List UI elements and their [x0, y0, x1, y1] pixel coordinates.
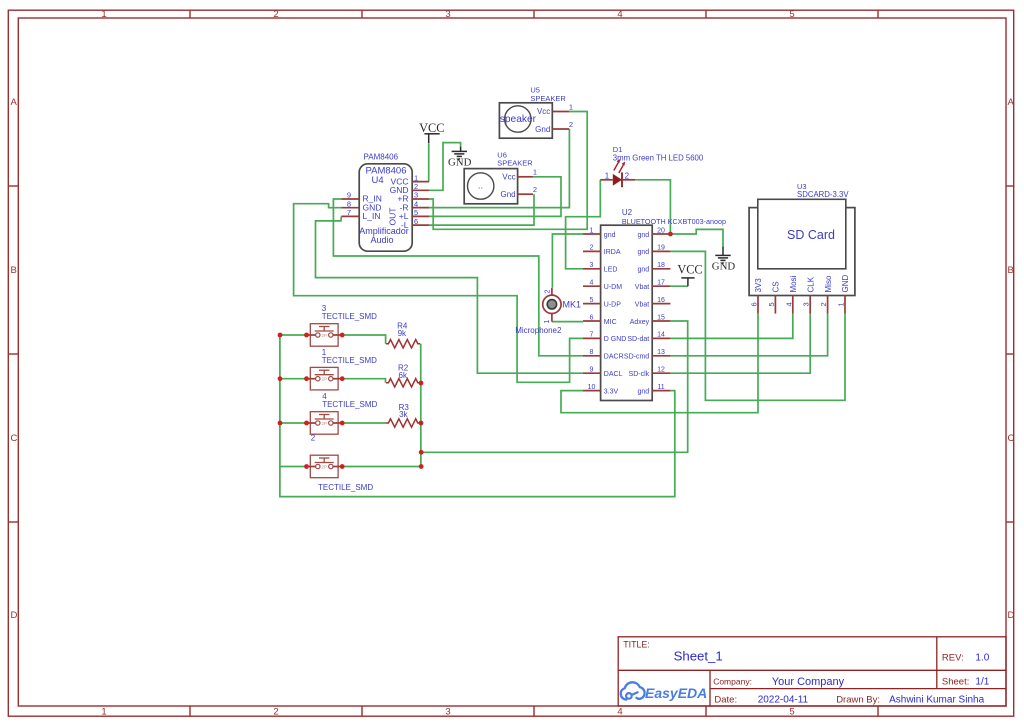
svg-text:4: 4 [784, 302, 793, 306]
svg-text:TECTILE_SMD: TECTILE_SMD [318, 483, 373, 492]
svg-text:2: 2 [819, 302, 828, 306]
svg-text:2022-04-11: 2022-04-11 [758, 695, 809, 706]
wire button S4 left [280, 422, 306, 424]
D1 pin 2 cathode stub [622, 179, 635, 181]
svg-text:5: 5 [789, 9, 794, 20]
svg-text:6: 6 [590, 314, 594, 321]
svg-text:U-DP: U-DP [604, 301, 621, 308]
wire U2 pin11 gnd to button common [280, 335, 675, 497]
svg-text:3: 3 [802, 302, 811, 306]
svg-text:Vbat: Vbat [635, 284, 649, 291]
U2 pin 2 IRDA stub [583, 250, 601, 252]
svg-text:19: 19 [657, 245, 665, 252]
frame tick right y=522 [1006, 521, 1014, 523]
U2 pin 19 gnd stub [652, 250, 670, 252]
svg-text:TECTILE_SMD: TECTILE_SMD [322, 400, 377, 409]
frame tick top x=190 [189, 10, 191, 18]
wire button S3 to R4 [342, 335, 386, 344]
wire U4 GND to U2 D GND [294, 204, 583, 383]
svg-text:14: 14 [657, 332, 665, 339]
U5 pin 2 Gnd stub [552, 128, 569, 130]
svg-text:Ashwini Kumar Sinha: Ashwini Kumar Sinha [889, 695, 984, 706]
svg-text:2: 2 [414, 182, 418, 191]
wire D1 cathode to U2 pin20 [635, 180, 670, 234]
svg-text:SPEAKER: SPEAKER [497, 159, 533, 168]
svg-text:C: C [1008, 433, 1015, 444]
svg-text:TITLE:: TITLE: [623, 640, 649, 650]
U4 pin 6 -L stub [412, 224, 429, 226]
svg-text:GND: GND [841, 275, 850, 293]
wire U4 L_IN to U2 DACL [316, 216, 584, 373]
svg-text:3: 3 [445, 707, 450, 718]
U4 pin 9 R_IN stub [341, 198, 359, 200]
svg-text:4: 4 [617, 9, 622, 20]
ground flag GND (near U4) [448, 147, 472, 169]
svg-text:C: C [11, 433, 18, 444]
U3 pin 2 Miso stub [827, 296, 829, 314]
svg-text:3.3V: 3.3V [604, 388, 619, 395]
EasyEDA logo [621, 682, 708, 701]
speaker U5 [499, 86, 566, 139]
svg-text:SD Card: SD Card [787, 228, 835, 242]
svg-text:4: 4 [617, 707, 622, 718]
U2 pin 3 LED stub [583, 268, 601, 270]
svg-text:CS: CS [772, 281, 781, 292]
svg-text:10: 10 [588, 384, 596, 391]
wire U2 pin20 to GND flag [670, 229, 723, 247]
svg-text:6: 6 [750, 302, 759, 306]
svg-text:7: 7 [347, 208, 351, 217]
U2 pin 17 Vbat stub [652, 285, 670, 287]
power flag VCC (U2 Vbat) [677, 263, 702, 287]
svg-text:..: .. [478, 181, 483, 191]
speaker U6 [464, 150, 533, 204]
pushbutton S1 TECTILE_SMD [304, 367, 345, 390]
LED D1 3mm Green TH LED 5600 [613, 145, 704, 187]
U2 pin 1 gnd stub [583, 233, 601, 235]
svg-text:A: A [11, 97, 18, 108]
frame tick bottom x=706 [705, 706, 707, 716]
svg-text:9k: 9k [398, 329, 407, 338]
U4 pin 2 GND stub [412, 189, 429, 191]
frame tick top x=534 [533, 10, 535, 18]
junction common S1 [278, 376, 283, 381]
pushbutton S2 TECTILE_SMD [304, 455, 345, 478]
svg-text:Sheet:: Sheet: [942, 677, 969, 688]
wire resistor column [420, 344, 422, 467]
svg-text:Gnd: Gnd [500, 190, 515, 199]
U2 pin 10 3.3V stub [583, 390, 601, 392]
svg-text:L_IN: L_IN [363, 211, 381, 221]
svg-text:DACL: DACL [604, 371, 623, 378]
svg-text:9: 9 [347, 191, 351, 200]
svg-text:7: 7 [590, 332, 594, 339]
svg-text:15: 15 [657, 314, 665, 321]
svg-text:D: D [11, 610, 18, 621]
svg-text:OUT: OUT [388, 208, 398, 226]
svg-text:B: B [1008, 265, 1014, 276]
svg-text:17: 17 [657, 280, 665, 287]
svg-text:2: 2 [273, 707, 278, 718]
svg-text:TECTILE_SMD: TECTILE_SMD [322, 312, 377, 321]
U4 pin 4 -R stub [412, 207, 429, 209]
frame tick right y=186 [1006, 185, 1014, 187]
wire U4 -L to U6 Gnd [429, 194, 534, 225]
svg-text:Vcc: Vcc [502, 173, 515, 182]
wire D1 anode to U2 LED [566, 180, 601, 269]
MK1 pin 1 stub [551, 313, 553, 321]
svg-text:2: 2 [625, 171, 630, 180]
op-amp U4 PAM8406 audio amplifier [359, 153, 412, 252]
svg-text:SD-clk: SD-clk [629, 371, 650, 378]
wire button S4 to R3 [342, 422, 386, 424]
wire button S1 to R2 [342, 379, 386, 383]
svg-text:SPEAKER: SPEAKER [530, 94, 566, 103]
svg-text:Gnd: Gnd [535, 125, 550, 134]
wire VCC flag to U4 pin1 VCC [428, 144, 430, 182]
svg-text:2: 2 [544, 290, 551, 294]
svg-text:U-DM: U-DM [604, 284, 622, 291]
frame tick left y=522 [8, 521, 18, 523]
svg-text:5: 5 [590, 297, 594, 304]
U2 pin 18 gnd stub [652, 268, 670, 270]
U2 pin 13 SD-cmd stub [652, 355, 670, 357]
U2 pin 11 gnd stub [652, 390, 670, 392]
U2 pin 7 D GND stub [583, 337, 601, 339]
svg-text:3: 3 [590, 262, 594, 269]
junction common S3 [278, 333, 283, 338]
svg-text:Company:: Company: [713, 676, 752, 686]
svg-text:2P: 2P [321, 465, 327, 470]
U2 pin 6 MIC stub [583, 320, 601, 322]
IC U2 BLUETOOTH KCXBT003-anoop [601, 208, 726, 401]
pushbutton S4 TECTILE_SMD [304, 412, 345, 435]
U4 pin 7 L_IN stub [341, 215, 359, 217]
svg-text:gnd: gnd [638, 267, 650, 274]
U2 pin 5 U-DP stub [583, 303, 601, 305]
svg-text:gnd: gnd [604, 232, 616, 239]
svg-text:REV:: REV: [942, 653, 964, 664]
svg-text:Microphone2: Microphone2 [515, 326, 562, 335]
svg-text:gnd: gnd [638, 249, 650, 256]
svg-text:gnd: gnd [638, 232, 650, 239]
svg-text:1: 1 [533, 168, 537, 177]
resistor R3 3k [386, 419, 420, 427]
svg-text:6: 6 [414, 217, 418, 226]
resistor R4 9k [386, 340, 420, 348]
svg-text:3V3: 3V3 [754, 278, 763, 293]
svg-text:2: 2 [273, 9, 278, 20]
U6 pin 1 Vcc stub [518, 176, 534, 178]
wire microphone pin1 to U2 MIC [552, 321, 583, 323]
frame tick bottom x=362 [361, 706, 363, 716]
svg-text:SD-dat: SD-dat [627, 336, 649, 343]
svg-text:LED: LED [604, 267, 618, 274]
U2 pin 20 gnd stub [652, 233, 670, 235]
svg-text:Sheet_1: Sheet_1 [674, 648, 723, 663]
svg-text:Your Company: Your Company [772, 676, 845, 688]
svg-text:1: 1 [101, 707, 106, 718]
U5 pin 1 Vcc stub [552, 111, 569, 113]
svg-text:3k: 3k [399, 410, 408, 419]
svg-text:U2: U2 [622, 208, 633, 217]
frame tick top x=362 [361, 10, 363, 18]
frame tick right y=354 [1006, 353, 1014, 355]
junction S2 right [419, 464, 424, 469]
svg-text:GND: GND [712, 261, 736, 273]
svg-text:2P: 2P [321, 377, 327, 382]
U2 pin 15 Adxey stub [652, 320, 670, 322]
svg-text:8: 8 [347, 199, 351, 208]
svg-text:2: 2 [533, 185, 537, 194]
svg-text:1: 1 [544, 320, 551, 324]
svg-text:EasyEDA: EasyEDA [645, 685, 707, 701]
junction common S4 [278, 421, 283, 426]
svg-text:GND: GND [448, 156, 472, 168]
frame tick top x=706 [705, 10, 707, 18]
svg-text:3mm Green TH LED 5600: 3mm Green TH LED 5600 [613, 154, 704, 163]
svg-text:VCC: VCC [677, 263, 702, 277]
frame tick bottom x=190 [189, 706, 191, 716]
wire U2 SD-clk to SD CLK [670, 314, 810, 374]
svg-text:5: 5 [789, 707, 794, 718]
svg-text:SDCARD-3.3V: SDCARD-3.3V [797, 190, 849, 199]
junction Adkey net [419, 450, 424, 455]
svg-text:DACR: DACR [604, 354, 624, 361]
svg-text:1/1: 1/1 [975, 677, 989, 688]
power flag VCC (U4) [419, 121, 444, 143]
U2 pin 4 U-DM stub [583, 285, 601, 287]
svg-text:1: 1 [837, 302, 846, 306]
U2 pin 16 Vbat stub [652, 303, 670, 305]
U4 pin 3 +R stub [412, 198, 429, 200]
U2 pin 12 SD-clk stub [652, 372, 670, 374]
svg-text:3: 3 [445, 9, 450, 20]
title block [618, 637, 1006, 706]
U3 pin 3 CLK stub [809, 296, 811, 314]
wire U4 R_IN to U2 DACR [333, 199, 583, 356]
wire U2 pin19 gnd to SD GND [670, 251, 845, 400]
U3 pin 1 GND stub [844, 296, 846, 314]
svg-text:Miso: Miso [824, 275, 833, 292]
svg-text:2P: 2P [321, 421, 327, 426]
svg-text:20: 20 [657, 227, 665, 234]
wire U2 SD-dat to SD Mosi [670, 314, 792, 339]
svg-text:13: 13 [657, 349, 665, 356]
svg-text:18: 18 [657, 262, 665, 269]
wire button S1 left [280, 378, 306, 380]
svg-text:2: 2 [311, 434, 316, 443]
svg-text:1: 1 [101, 9, 106, 20]
svg-text:MIC: MIC [604, 319, 617, 326]
U4 pin 5 +L stub [412, 215, 429, 217]
frame tick bottom x=534 [533, 706, 535, 716]
svg-text:2: 2 [569, 120, 573, 129]
frame tick left y=186 [8, 185, 18, 187]
wire U2 pin1 gnd to microphone pin2 [552, 234, 583, 288]
wire button S2 to column [342, 466, 421, 468]
wire U4 +R to U5 Vcc [429, 112, 587, 230]
connector U3 SDCARD-3.3V [749, 182, 855, 296]
svg-text:1.0: 1.0 [975, 653, 989, 664]
svg-text:1: 1 [590, 227, 594, 234]
svg-text:PAM8406: PAM8406 [364, 153, 399, 162]
junction U2 pin20 / D1 net [668, 232, 673, 237]
frame tick left y=354 [8, 353, 18, 355]
svg-text:SD-cmd: SD-cmd [624, 354, 649, 361]
frame tick bottom x=878 [877, 706, 879, 716]
svg-text:speaker: speaker [500, 114, 537, 125]
U4 pin 1 VCC stub [412, 181, 429, 183]
wire U2 SD-cmd to SD Miso [670, 314, 827, 356]
svg-text:U4: U4 [372, 175, 384, 186]
U3 pin 5 CS stub [774, 296, 776, 314]
MK1 pin 2 stub [551, 288, 553, 295]
U6 pin 2 Gnd stub [518, 193, 534, 195]
svg-text:4: 4 [590, 280, 594, 287]
wire U4 pin2 GND to GND flag [429, 143, 461, 191]
svg-text:1: 1 [569, 102, 573, 111]
svg-text:Drawn By:: Drawn By: [836, 695, 880, 706]
wire U4 +L to U6 Vcc [429, 177, 561, 217]
U3 pin 4 Mosi stub [792, 296, 794, 314]
svg-text:5: 5 [767, 302, 776, 306]
U4 pin 8 GND stub [341, 207, 359, 209]
wire U4 -R to U5 Gnd [429, 129, 569, 208]
svg-text:Adxey: Adxey [630, 319, 650, 326]
wire button S2 left [280, 466, 306, 468]
wire U2 pin15 Adkey to button ladder [421, 321, 688, 452]
resistor R2 6k [386, 379, 420, 387]
svg-text:Vcc: Vcc [537, 107, 550, 116]
svg-text:1: 1 [605, 171, 610, 180]
svg-text:4: 4 [414, 199, 418, 208]
svg-text:2P: 2P [321, 333, 327, 338]
svg-text:8: 8 [590, 349, 594, 356]
svg-text:D GND: D GND [604, 336, 627, 343]
D1 pin 1 anode stub [600, 179, 613, 181]
junction R3 right [419, 421, 424, 426]
svg-text:5: 5 [414, 208, 418, 217]
svg-text:11: 11 [657, 384, 664, 391]
wire button S3 left [280, 334, 306, 336]
svg-text:2: 2 [590, 245, 594, 252]
junction R2 right [419, 381, 424, 386]
wire U2 3.3V to SD 3V3 [561, 314, 758, 413]
microphone MK1 [515, 295, 581, 335]
frame tick top x=878 [877, 10, 879, 18]
U2 pin 14 SD-dat stub [652, 337, 670, 339]
svg-text:6k: 6k [399, 371, 408, 380]
pushbutton S3 TECTILE_SMD [304, 324, 345, 347]
svg-text:CLK: CLK [806, 276, 815, 292]
wire U2 pin17 Vbat to VCC flag [670, 285, 688, 287]
svg-text:TECTILE_SMD: TECTILE_SMD [322, 356, 377, 365]
svg-text:B: B [11, 265, 17, 276]
svg-text:Vbat: Vbat [635, 301, 649, 308]
U2 pin 9 DACL stub [583, 372, 601, 374]
svg-text:gnd: gnd [638, 388, 650, 395]
U2 pin 8 DACR stub [583, 355, 601, 357]
svg-text:12: 12 [657, 367, 665, 374]
svg-text:MK1: MK1 [563, 300, 582, 310]
svg-text:A: A [1008, 97, 1015, 108]
svg-text:D: D [1008, 610, 1015, 621]
svg-text:16: 16 [657, 297, 665, 304]
svg-text:IRDA: IRDA [604, 249, 621, 256]
svg-text:1: 1 [414, 173, 418, 182]
U3 pin 6 3V3 stub [757, 296, 759, 314]
svg-text:Mosi: Mosi [789, 275, 798, 292]
svg-text:Audio: Audio [370, 235, 393, 245]
svg-text:Date:: Date: [714, 695, 737, 706]
ground flag GND (U2 pin20) [712, 247, 736, 273]
svg-text:9: 9 [590, 367, 594, 374]
